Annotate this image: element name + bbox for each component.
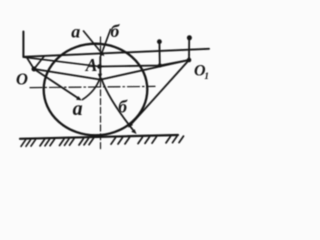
pin 2 xyxy=(188,38,190,60)
ground hatching group 2 xyxy=(40,139,55,146)
bar A to O1 xyxy=(100,60,190,67)
svg-text:б: б xyxy=(118,96,128,116)
pin 1 lower dot xyxy=(158,64,162,68)
bar O to knot xyxy=(34,69,101,80)
ground hatching group 5 xyxy=(111,137,130,144)
top beam xyxy=(23,49,209,57)
pivot O dot xyxy=(32,67,37,72)
rod from O1 to wheel rim with arrowhead xyxy=(130,60,189,125)
svg-text:a: a xyxy=(71,22,80,42)
horizontal center line (dash-dot axis) xyxy=(30,86,155,87)
svg-text:1: 1 xyxy=(204,72,209,82)
svg-text:a: a xyxy=(73,98,83,120)
section slant b top with arrowhead xyxy=(102,30,111,54)
svg-text:A: A xyxy=(85,55,98,75)
rod from O to wheel rim with arrowhead xyxy=(34,69,79,99)
ground hatching group 1 xyxy=(21,140,36,147)
wheel xyxy=(44,44,148,136)
section slant a top with arrowhead xyxy=(84,31,103,54)
bar bracket to A xyxy=(24,57,100,66)
pin 2 top dot xyxy=(187,35,192,40)
svg-text:б: б xyxy=(110,21,120,41)
section curve b lower with arrowhead xyxy=(101,79,134,132)
pin 1 xyxy=(158,42,160,66)
ground line xyxy=(20,135,178,139)
joint A dot xyxy=(97,64,102,69)
vertical center line (dashed axis) xyxy=(100,37,102,149)
section curve a lower xyxy=(83,79,100,100)
vertical arrow from A xyxy=(99,57,101,75)
hanger triangle at O xyxy=(27,56,45,69)
pin 1 top dot xyxy=(157,39,162,44)
svg-text:O: O xyxy=(16,69,28,88)
ground hatching group 6 xyxy=(138,137,157,144)
ground hatching group 3 xyxy=(60,139,75,146)
left wall bracket xyxy=(22,32,24,58)
bar knot to O1 xyxy=(101,60,190,80)
ground hatching group 7 xyxy=(166,136,184,143)
ground hatching group 4 xyxy=(79,138,94,145)
pivot O1 dot xyxy=(187,58,192,63)
